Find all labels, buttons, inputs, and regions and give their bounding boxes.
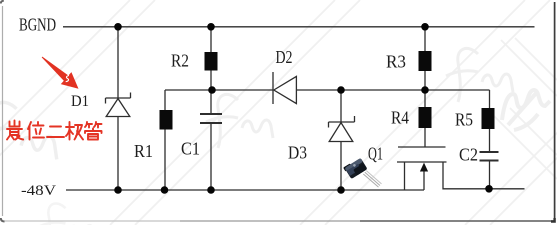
svg-text:R4: R4: [391, 108, 409, 128]
svg-text:R1: R1: [134, 141, 153, 161]
svg-text:C2: C2: [459, 145, 478, 165]
svg-text:D2: D2: [276, 47, 293, 67]
svg-text:Q1: Q1: [368, 143, 383, 163]
svg-text:BGND: BGND: [19, 15, 56, 35]
svg-text:D3: D3: [288, 143, 307, 163]
svg-text:R2: R2: [171, 51, 189, 71]
svg-text:C1: C1: [181, 139, 200, 159]
svg-text:R5: R5: [455, 109, 473, 129]
svg-text:R3: R3: [386, 52, 406, 72]
svg-text:D1: D1: [71, 93, 89, 110]
svg-text:-48V: -48V: [21, 183, 56, 199]
